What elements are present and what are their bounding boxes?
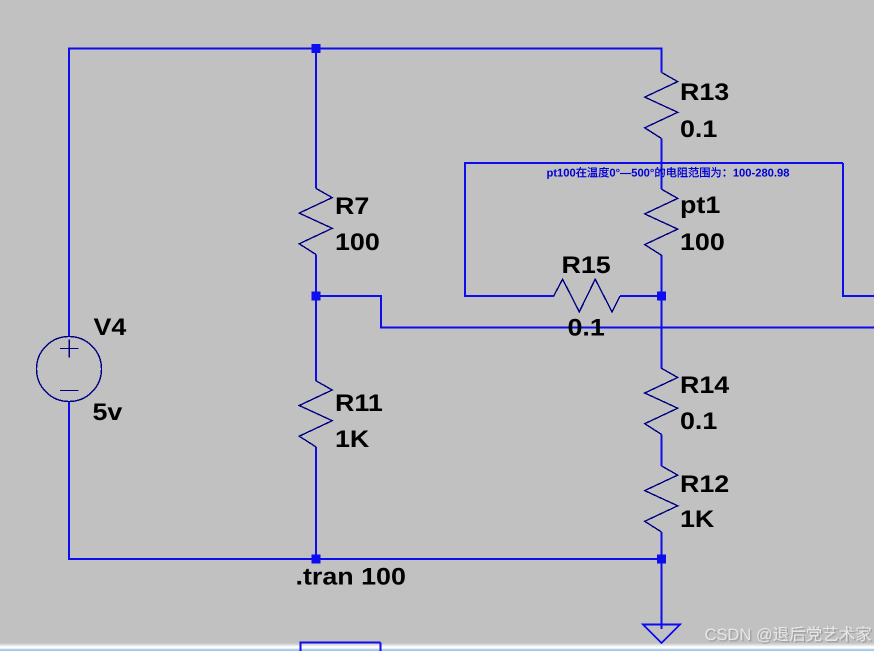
wire right column R13 to pt1 [661,139,663,190]
label pt1 [680,192,720,219]
svg-text:V4: V4 [94,314,128,341]
svg-text:5v: 5v [93,399,124,426]
wire right column R14 to R12 [661,434,663,466]
wire left column lower [68,402,70,561]
svg-text:0.1: 0.1 [568,315,605,342]
wire middle column node to R11 [315,296,317,381]
watermark CSDN [705,626,873,646]
label R12 [680,471,729,498]
svg-text:pt100: pt100 [547,168,576,180]
ground [643,625,680,644]
svg-text:R12: R12 [680,471,729,498]
node junction bottom middle [312,555,321,564]
wire node A step vertical [380,295,382,328]
resistor R15 [554,279,620,312]
wire box left edge [464,163,466,296]
svg-text:R15: R15 [562,252,611,279]
spice directive .tran 100 [296,564,406,591]
label R14 [680,372,730,399]
resistor R7 [299,188,332,254]
wire bottom node to ground [661,559,663,629]
node junction top middle [312,44,321,53]
wire box bottom stub to right edge [842,295,874,297]
svg-text:R13: R13 [680,79,729,106]
svg-text:0°—500°: 0°—500° [609,168,654,180]
svg-text:100: 100 [335,229,380,256]
wire right column node to R14 [661,296,663,369]
value 0.1 (R15) [568,315,605,342]
wire middle column R11 to bottom [315,447,317,560]
wire R15 to node B [620,295,662,297]
resistor R14 [645,368,678,434]
resistor pt1 [645,189,678,255]
resistor R13 [645,72,678,138]
svg-text:100-280.98: 100-280.98 [733,168,790,180]
svg-text:0.1: 0.1 [680,408,717,435]
wire left column upper [68,48,70,338]
comment text pt100 annotation [547,167,790,179]
svg-text:0.1: 0.1 [680,116,717,143]
wire partial box bottom left [300,643,302,651]
value 1K (R11) [335,426,370,453]
value 1K (R12) [680,506,715,533]
wire middle column above R7 [315,48,317,189]
wire partial box bottom top [300,642,381,644]
svg-text:1K: 1K [335,426,370,453]
value 0.1 (R14) [680,408,717,435]
value 100 (R7) [335,229,380,256]
wire right column R12 to bottom [661,532,663,560]
svg-text:R14: R14 [680,372,730,399]
svg-text:100: 100 [680,229,725,256]
node A junction (mid left) [312,292,321,301]
svg-text:pt1: pt1 [680,192,720,219]
wire top rail [68,48,662,50]
value 5v [93,399,124,426]
svg-text:R7: R7 [335,193,369,220]
wire node A to right edge [380,327,874,329]
wire right column above R13 [661,48,663,73]
value 0.1 (R13) [680,116,717,143]
svg-text:CSDN @: CSDN @ [705,626,773,644]
svg-text:1K: 1K [680,506,715,533]
wire bottom rail [68,558,662,560]
svg-text:R11: R11 [335,390,383,417]
wire box bottom to R15 [464,295,554,297]
label R7 [335,193,369,220]
wire partial box bottom right [380,643,382,651]
voltage source V4 [37,337,102,402]
label V4 [94,314,128,341]
label R11 [335,390,383,417]
resistor R11 [299,381,332,447]
wire box right edge [842,163,844,297]
value 100 (pt1) [680,229,725,256]
window bottom edge [0,643,874,651]
node B junction (mid right) [657,292,666,301]
label R13 [680,79,729,106]
svg-text:.tran 100: .tran 100 [296,564,406,591]
resistor R12 [645,466,678,532]
wire box top edge [464,162,843,164]
wire node A step horizontal [316,295,382,297]
label R15 [562,252,611,279]
wire right column pt1 to node [661,255,663,296]
node junction bottom right [657,555,666,564]
wire middle column R7 to node [315,254,317,296]
